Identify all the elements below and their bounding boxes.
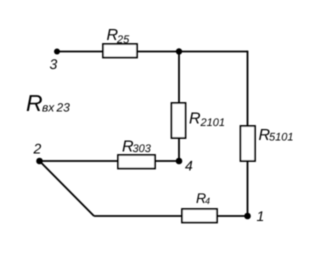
- wire node2 horizontal to node 4: [40, 160, 180, 162]
- node 3: [50, 49, 61, 73]
- resistor R2101: [172, 103, 225, 138]
- svg-text:4: 4: [185, 158, 193, 174]
- wire diagonal node2 to bottom rail: [40, 161, 95, 216]
- svg-text:25: 25: [116, 34, 130, 46]
- resistor R303: [118, 139, 155, 169]
- svg-text:1: 1: [257, 208, 265, 224]
- resistor R25: [103, 27, 137, 58]
- svg-text:3: 3: [50, 56, 58, 72]
- svg-text:303: 303: [133, 143, 152, 155]
- wire top rail node3 to top-right corner: [57, 51, 248, 53]
- label Rвх23 input resistance: [26, 90, 70, 116]
- svg-text:2101: 2101: [200, 117, 225, 129]
- node 2: [33, 141, 43, 165]
- svg-text:R: R: [26, 90, 43, 116]
- svg-text:5101: 5101: [269, 132, 293, 144]
- svg-text:2: 2: [33, 141, 42, 157]
- resistor R5101: [241, 126, 294, 161]
- resistor R4: [182, 190, 217, 223]
- svg-text:R: R: [189, 111, 201, 128]
- node junction top: [176, 48, 182, 54]
- node 1: [244, 208, 264, 224]
- wire junction vertical to node 4: [178, 52, 180, 162]
- wire bottom rail to node1: [94, 215, 248, 217]
- wire right vertical corner to node 1: [247, 51, 249, 216]
- node 4: [176, 158, 193, 174]
- svg-text:4: 4: [205, 196, 210, 206]
- svg-text:23: 23: [56, 101, 71, 115]
- svg-text:вх: вх: [42, 101, 55, 115]
